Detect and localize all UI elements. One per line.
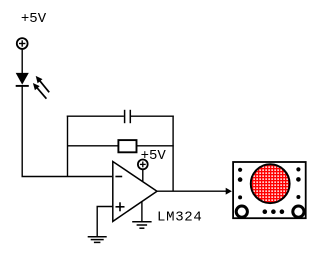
oscilloscope screen bbox=[251, 164, 290, 203]
light arrow 1 into photodiode bbox=[36, 76, 50, 92]
supply terminal +5V (op-amp) bbox=[138, 160, 148, 170]
wire: output to oscilloscope bbox=[157, 190, 227, 192]
svg-text:LM324: LM324 bbox=[157, 209, 203, 225]
wire: feedback right vertical bbox=[172, 116, 174, 192]
wire: op-amp V- stub bbox=[141, 202, 143, 222]
op-amp non-inverting input marker bbox=[116, 202, 125, 211]
ground (op-amp V-) bbox=[132, 222, 151, 229]
resistor R1 bbox=[118, 140, 136, 152]
light arrow 2 into photodiode bbox=[33, 83, 47, 99]
oscilloscope right knob bbox=[293, 206, 304, 217]
wire: supply to photodiode bbox=[21, 49, 23, 74]
wire: non-inverting input to ground bbox=[97, 207, 113, 237]
wire: photodiode to inverting input bbox=[22, 86, 112, 177]
wire: feedback left vertical bbox=[67, 116, 69, 177]
oscilloscope right buttons bbox=[296, 167, 301, 199]
oscilloscope bottom dots bbox=[263, 209, 285, 214]
wire: resistor branch right bbox=[137, 145, 174, 147]
op-amp U1 triangle bbox=[113, 162, 157, 222]
ground (non-inverting input) bbox=[88, 237, 107, 243]
wire: supply stub to op-amp V+ bbox=[142, 169, 144, 181]
oscilloscope body bbox=[233, 162, 306, 218]
oscilloscope left buttons bbox=[238, 168, 243, 200]
wire: capacitor branch left bbox=[67, 115, 124, 117]
wire: resistor branch left bbox=[68, 145, 119, 147]
photodiode D1 bbox=[16, 73, 29, 86]
svg-text:+5V: +5V bbox=[21, 11, 47, 27]
svg-text:+5V: +5V bbox=[141, 148, 167, 164]
supply terminal +5V (top) bbox=[17, 38, 28, 49]
op-amp inverting input marker bbox=[115, 176, 122, 178]
wire: capacitor branch right bbox=[131, 115, 174, 117]
arrowhead at oscilloscope input bbox=[226, 188, 232, 195]
capacitor C1 bbox=[125, 110, 131, 123]
oscilloscope left knob bbox=[236, 206, 247, 217]
